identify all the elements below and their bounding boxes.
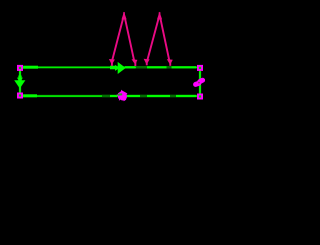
node marker: blob on right conductor [196,80,203,84]
ray: tent1 left leg [112,18,123,60]
ray: tent2 right leg [160,18,169,60]
wire: top conductor bright core [23,67,197,69]
wire: bottom conductor bright core [23,95,197,97]
handle: top-right selection square [197,65,203,71]
handle: bottom-right selection square [197,94,203,100]
arrowhead: tent2 right foot (points down) [169,60,171,66]
ray group: incident/reflected ray tent 1 [109,12,137,66]
wire: bottom conductor dark segment 1 [102,95,110,97]
wire: top conductor (base) [23,66,197,68]
wire: top conductor bright segment right [172,66,197,68]
arrowhead: tent2 left foot (points down) [146,60,148,66]
ray: tent1 right leg [125,18,134,60]
wire: top conductor bright segment 2 [147,66,167,68]
handle: top-left selection square [17,65,23,71]
wire: bottom conductor bright segment 3 [147,95,170,97]
node marker: star on bottom conductor [116,90,127,102]
wire: bottom conductor bright segment 2 [127,95,140,97]
wire: left vertical conductor [19,71,21,93]
wire: bottom conductor dark segment 3 [170,95,176,97]
wire: top conductor dark segment 2 [167,66,172,68]
arrowhead: tent1 right foot (points down) [134,60,136,66]
arrowhead: tent1 apex (points up) [123,12,125,17]
wire: bottom conductor (base) [23,95,197,97]
arrow: current direction on left conductor (points down) [14,76,25,89]
wire: top conductor bright segment left [22,66,38,69]
arrow: current direction on top conductor (points right) [110,62,126,74]
ray group: incident/reflected ray tent 2 [144,12,173,66]
handle: bottom-left selection square [17,93,23,99]
node marker: green notch inside star [118,93,122,96]
wire: bottom conductor bright segment left [23,94,37,97]
wire: bottom conductor bright segment right [176,95,196,97]
wire: bottom conductor dark segment 2 [140,95,147,97]
ray: tent2 left leg [147,18,158,60]
wire: top conductor bright segment mid [125,66,136,68]
wire: right vertical conductor [199,71,201,94]
wire: bottom conductor bright segment 1 [110,95,117,97]
arrowhead: tent2 apex (points up) [159,12,161,17]
arrowhead: tent1 left foot (points down) [111,60,113,66]
wire: top conductor dark segment 1 [136,66,147,68]
